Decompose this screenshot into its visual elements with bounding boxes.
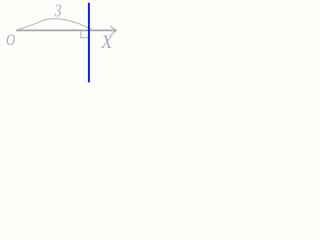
curve (trajectory arc from O to wall) <box>16 19 91 31</box>
svg-text:O: O <box>6 32 16 49</box>
background <box>0 0 125 104</box>
x axis <box>16 29 116 31</box>
vertical wall line (blue) <box>88 3 90 83</box>
x axis arrowhead <box>110 26 116 34</box>
svg-text:X: X <box>100 33 113 53</box>
right-angle marker <box>81 31 89 38</box>
svg-text:3: 3 <box>54 1 62 21</box>
